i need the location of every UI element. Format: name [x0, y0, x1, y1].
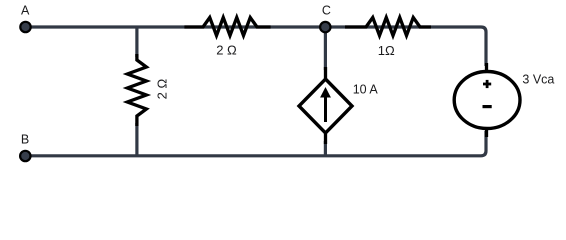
svg-text:C: C: [322, 4, 331, 18]
svg-text:3 Vca: 3 Vca: [522, 73, 554, 87]
svg-text:B: B: [21, 132, 29, 146]
svg-text:2 Ω: 2 Ω: [216, 42, 237, 57]
svg-text:1Ω: 1Ω: [378, 43, 395, 58]
svg-text:A: A: [21, 4, 30, 18]
svg-text:10 A: 10 A: [353, 83, 379, 97]
svg-text:2 Ω: 2 Ω: [154, 79, 169, 100]
